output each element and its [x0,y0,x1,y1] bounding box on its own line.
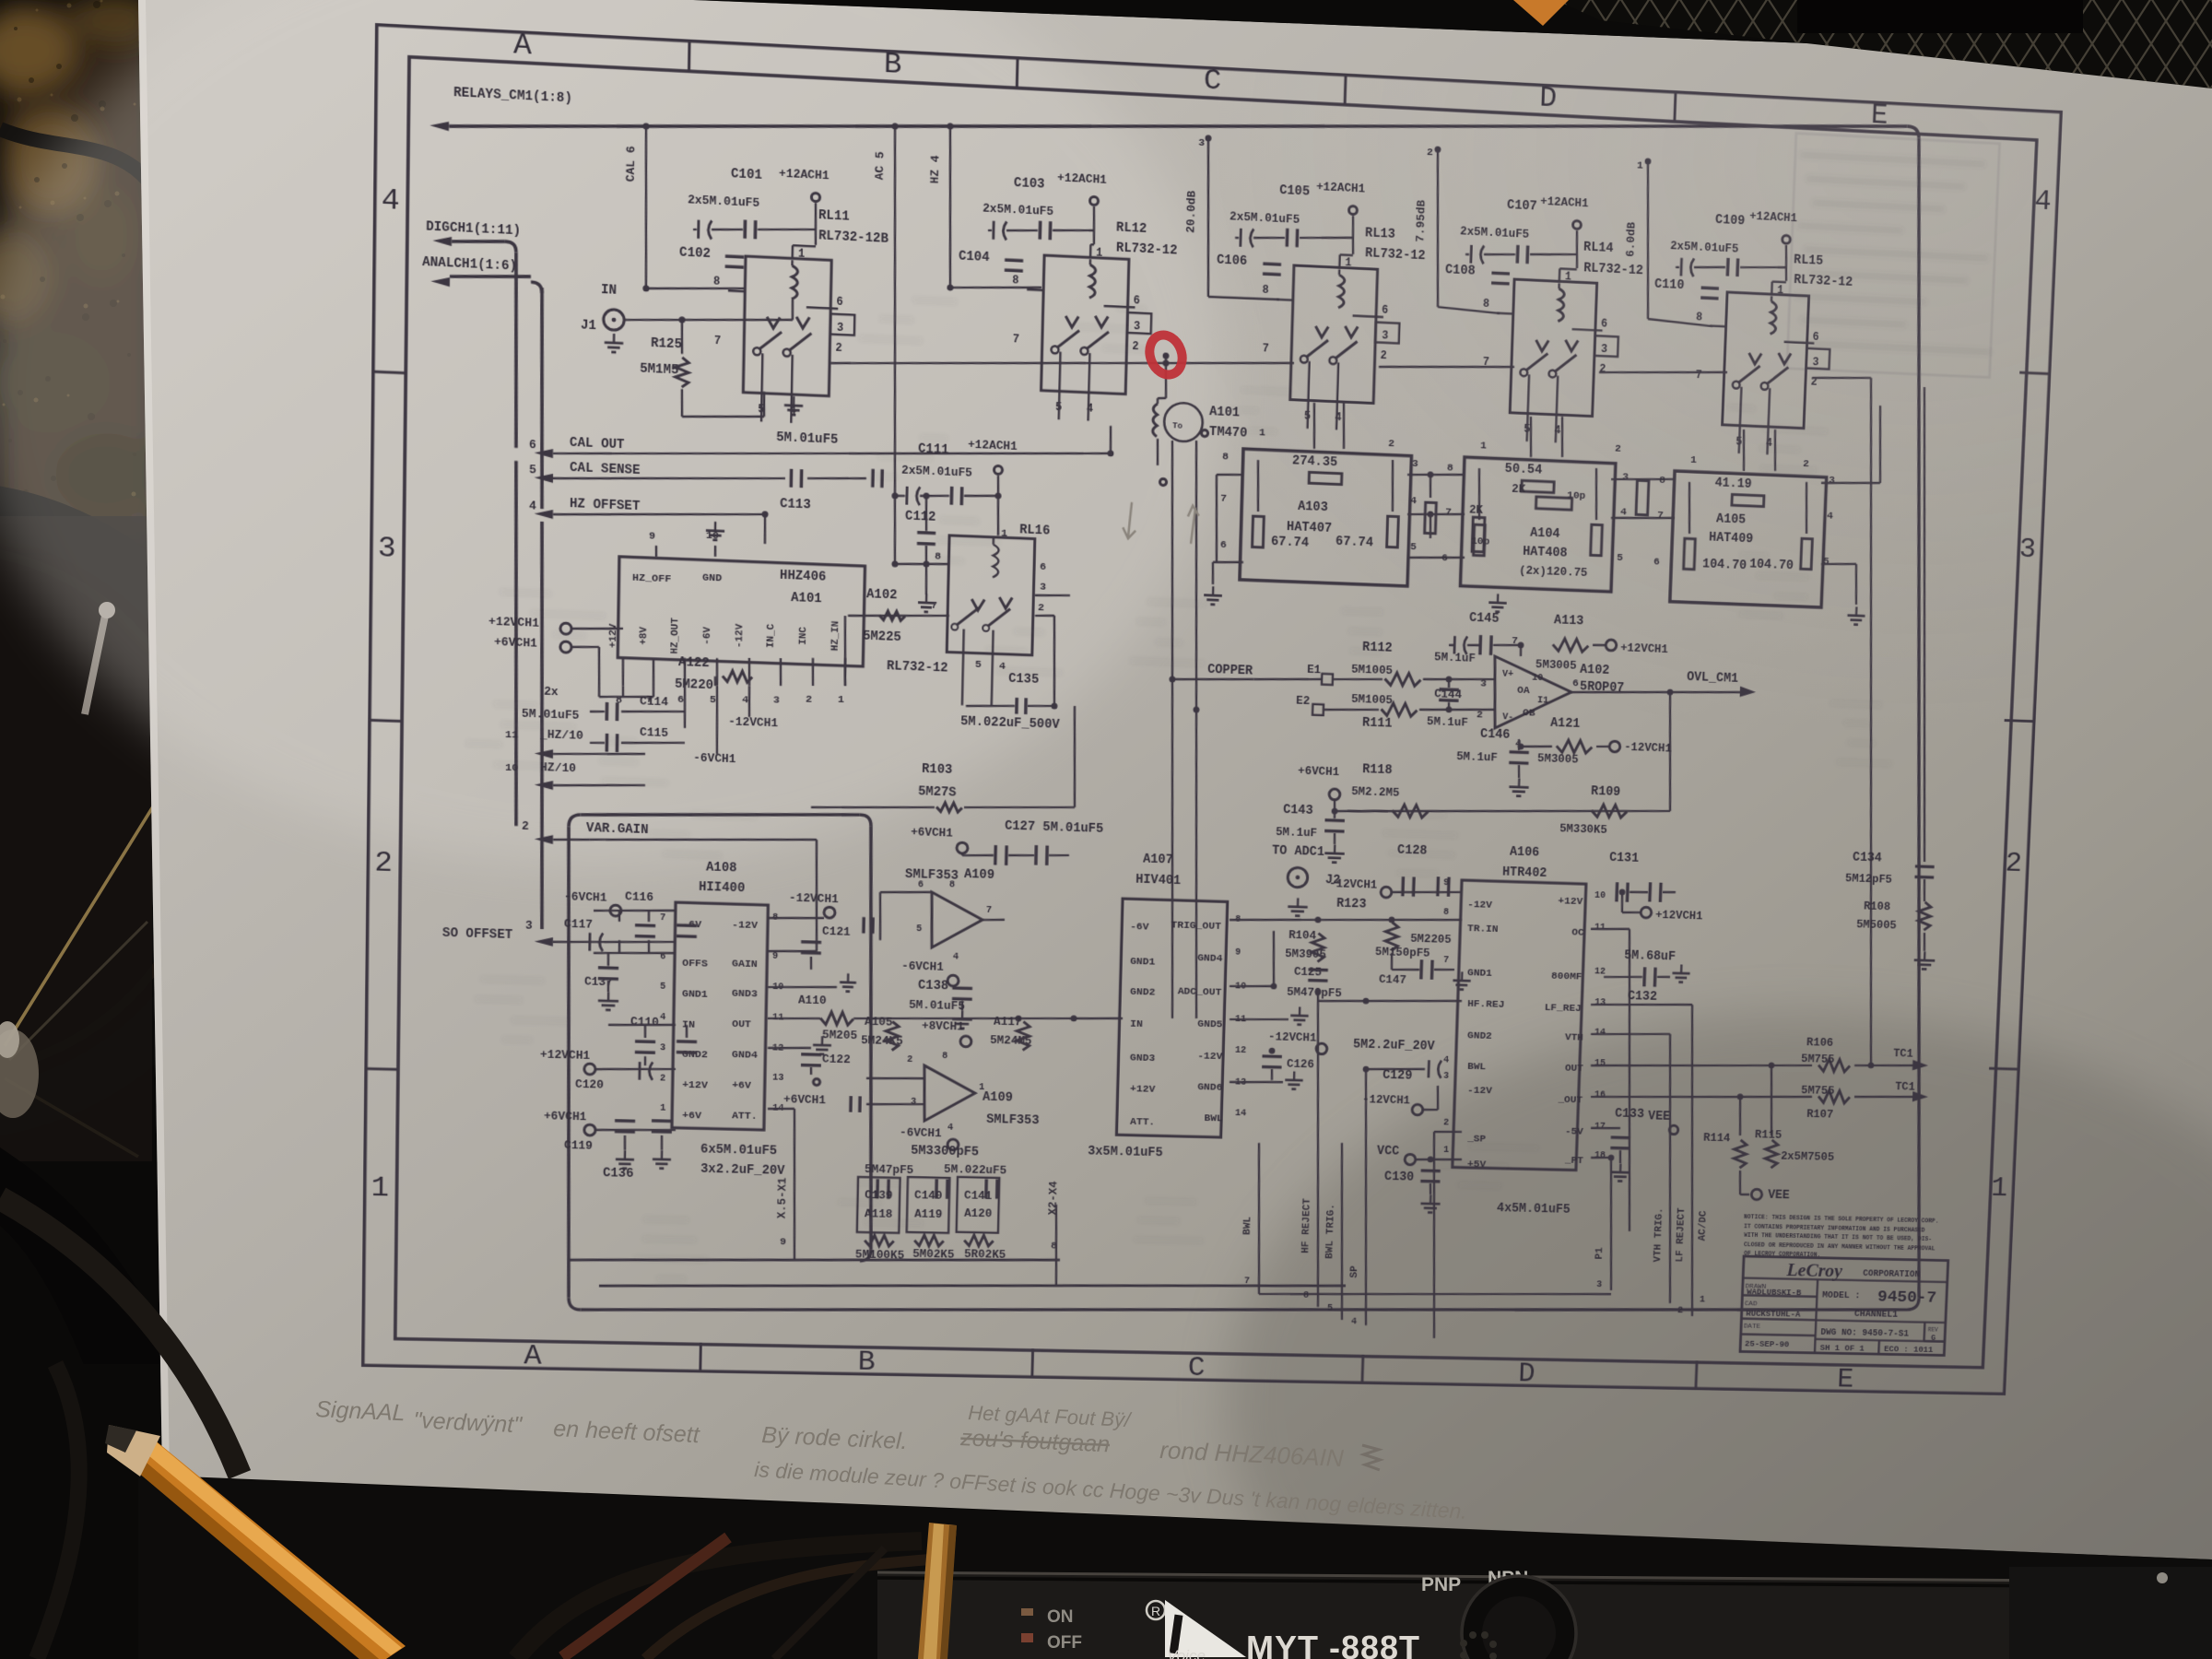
ground A105 [1855,606,1858,616]
bus RELAYS_CM1 bottom wire [581,1284,1907,1335]
bus RELAYS_CM1 right corner [1906,126,1919,138]
relay RL13 pin 3 box [1375,323,1399,344]
relay RL14 pin8 wire [1497,312,1513,314]
wire A103-A104 p5 [1407,556,1465,560]
wire A103-A104 p4 [1407,512,1465,516]
hybrid A106 box [1453,880,1586,1171]
bus RELAYS_CM1 top wire [449,52,1907,198]
op-amp A109b in wires [891,1053,892,1078]
relay RL15 coil [1771,301,1777,335]
ghost title block top right [1793,152,2000,356]
relay RL12 pin8 wire [1027,288,1043,291]
hybrid A103 top resistor [1309,472,1342,484]
zone tick bottom [699,1343,702,1373]
capacitor C102 plates [725,254,744,258]
cap-res box C140 A119 [907,1177,950,1233]
wire -12V pin9 A106 [1392,890,1462,895]
multimeter panel [877,1572,2212,1659]
bus left wire [562,827,576,1298]
capacitor C111 plates [905,487,908,505]
wire OC down [1591,928,1630,930]
wire TR.IN line [1230,912,1462,926]
transformer TM470 sec pin [1159,478,1166,485]
relay RL11 switch arrows [767,317,780,329]
relay RL16 bottom wires [962,629,964,705]
wire +12 to coil RL15 [1772,280,1786,283]
relay RL13 pin 6 [1353,316,1383,318]
relay RL12 coil [1089,265,1096,298]
transformer TM470 inner pin [1201,429,1207,436]
net HZ 4 vertical wire [947,126,954,288]
bus X2-X4 lane [1054,1205,1058,1286]
bus lanes bottom right [1259,1287,1611,1300]
bus lane BWL [1056,1280,1342,1291]
zone tick right [1989,1067,2020,1071]
cap-res box C139 A118 [857,1177,900,1233]
wire A103-A104 p3 [1407,472,1465,477]
hybrid A103 right resistor [1387,516,1399,547]
drawing outer border [361,23,2063,1395]
wire TM470 primary [1157,398,1159,404]
red annotation circle [1145,331,1188,380]
wire RL12 pin4 down [1089,392,1095,496]
wire caps rail [590,711,605,712]
tire bottom arc [0,1147,175,1438]
transformer A101 TM470 circle [1164,402,1204,441]
wire OUT line [768,1018,820,1020]
cable top-left [0,129,147,180]
capacitor C105 plates [1239,229,1241,247]
relay RL13 bottom pin wires [1308,361,1310,429]
title block mid line [1816,1320,1945,1323]
wire R108 gnd [1924,879,1925,901]
paper left edge shade [138,0,170,1476]
wire SP drop [1434,1131,1462,1132]
hybrid A101 pin 5 -6V [716,658,717,686]
bicycle wheel rim [0,507,249,1115]
relay RL14 box [1510,279,1596,417]
wire J1 to RL11 [624,312,793,327]
zone tick left [368,720,402,721]
connector J2 [1288,867,1308,888]
resistor R125 [676,358,689,388]
relay RL16 pin7 wire [848,612,949,619]
wire C111 rail [895,494,905,497]
relay RL13 box [1290,265,1378,404]
svg-text:en heeft ofsett: en heeft ofsett [553,1416,701,1448]
drawing inner border [395,57,2037,1368]
op-amp A102 pin7 wire [1520,645,1522,669]
wire R125 down [681,389,682,417]
wire A108L rails [644,1025,647,1038]
wire RL14 drop to A104 [1529,417,1532,457]
svg-text:ON: ON [1047,1607,1074,1627]
bus loop A108 right [862,826,879,1250]
hybrid top resistor [1522,480,1554,492]
relay RL14 bottom pin wires [1527,374,1529,441]
dark zone mid-left [0,516,152,1161]
wire cap rail RL14 [1465,253,1469,256]
relay RL15 bottom pin wires [1739,387,1742,453]
hybrid box [1460,457,1615,592]
capacitor C101 plates [697,220,700,239]
hybrid A101 pin 1 HZ_IN [844,658,845,686]
wire cap rail RL11 [693,229,697,231]
cap-res box C141 A120 [957,1177,1000,1233]
bus left top corner [569,815,581,828]
capacitor C145 [1453,636,1455,653]
junction OUT rows [1769,1063,1775,1069]
hybrid inner wires [1688,482,1691,534]
hybrid A101 HHZ406 box [618,557,865,666]
svg-text:OFF: OFF [1047,1633,1082,1653]
zone tick bottom [1696,1360,1697,1390]
zone tick bottom [1362,1355,1363,1384]
bus loop A108 top [581,806,860,823]
relay RL12 pin1 wire [1089,244,1092,257]
paper sheen [0,0,1226,866]
title block left column line [1815,1279,1818,1353]
relay RL16 box [947,535,1035,655]
capacitor C106 plates [1263,262,1281,265]
relay RL15 box [1723,292,1809,429]
wire C116 rails [594,908,676,912]
relay RL12 pin 6 [1104,306,1135,308]
meter logo triangle [1165,1600,1246,1657]
relay RL13 pin1 wire [1338,254,1341,267]
right equipment dark [2009,1567,2212,1659]
wire junction to TM470 [1165,356,1168,398]
wire AC junction to RL16 [895,562,949,567]
hybrid A101 pin9 [655,546,658,557]
pencil2 stick [918,1523,957,1659]
relay RL11 switch levers [759,331,782,350]
svg-text:Bÿ rode cirkel.: Bÿ rode cirkel. [761,1422,908,1454]
relay RL15 pin1 wire [1771,282,1773,295]
zone tick right [2005,720,2036,721]
wire cap rail RL13 [1235,237,1239,240]
desk texture top-left [0,0,157,535]
relay RL12 box [1041,255,1129,394]
wire A104-A105 [1611,477,1675,482]
bus X.5-X1 lane [570,1250,1060,1270]
ground A108 GND3 [768,985,837,989]
capacitor C113 [790,469,794,488]
svg-text:PNP: PNP [1421,1574,1461,1595]
relay RL12 switch levers [1057,330,1079,349]
transistor socket [1462,1576,1576,1659]
title block bottom line [1816,1339,1945,1342]
relay RL14 pin 3 box [1594,335,1618,357]
relay RL16 levers [957,607,979,627]
hybrid A103 inner wires [1256,460,1259,512]
top edge dark strip [693,0,2212,59]
zone tick right [2019,372,2051,374]
hybrid A101 pin 2 INC [812,658,813,686]
capacitor C103 plates [992,221,994,240]
ground J1 [613,334,616,343]
relay RL14 pin 6 [1572,329,1603,331]
wire +12VCH1 to pin8 [571,627,623,630]
hybrid A101 pin 8 +12V [621,658,624,686]
svg-text:rond HHZ406AIN: rond HHZ406AIN [1159,1436,1345,1472]
ground A104 [1497,594,1500,603]
wire CAL OUT drop [1110,426,1111,453]
op-amp pin4 wire [1520,715,1522,747]
hybrid A101 pin10 [714,546,717,557]
title block outer box [1740,1256,1948,1355]
title block left rows [1742,1295,1817,1297]
relay RL11 coil [792,265,798,299]
bus ANALCH1 lower run [512,461,522,826]
relay RL15 pin8 wire [1710,324,1725,327]
wire GND5 A107 [1230,1018,1288,1020]
relay RL16 coil [993,545,999,578]
tire arcs bottom left [0,1198,240,1475]
zone tick top [1345,74,1346,105]
hybrid inner wires [1477,468,1481,520]
wire A105 right out [1821,480,1880,485]
wire E1 line [1253,677,1322,681]
wire A101 pin1 to A102 [843,616,846,686]
wire OUT row [1591,1060,1812,1072]
power VEE pin [1669,1125,1678,1135]
net HZ OFFSET stub [535,509,554,519]
wire COPPER left [1172,677,1253,682]
power +12ACH1 pin RL14 [1572,220,1581,229]
relay RL14 pin1 wire [1559,268,1561,281]
bus DIGCH1 wedge [432,236,452,246]
feedback resistors [865,1235,894,1246]
handwriting scribble [1361,1445,1381,1470]
net CAL SENSE stub [535,473,554,483]
op-amp A109a triangle [931,892,983,949]
wire +12 to coil RL13 [1340,253,1353,256]
relay RL12 pin 3 box [1127,312,1151,334]
nail [85,616,105,714]
wire C145 to opamp pin7 [1519,645,1522,656]
hybrid top resistor [1732,495,1764,507]
power +12VCH1 A106 [1641,907,1652,918]
hybrid A103 box [1240,449,1411,586]
wire BWL drop [1358,1069,1373,1325]
bus ANALCH1 wire [450,273,531,280]
relay RL15 pin 3 box [1806,348,1830,370]
wheel spoke dim [9,922,147,1060]
wire J1 branch down [681,320,682,354]
hybrid left resistor [1474,524,1486,556]
zone tick left [371,371,406,373]
relay RL11 box [743,256,831,396]
relay RL12 switch arrows [1065,316,1078,328]
wire RL15 drop to A105 [1742,429,1745,471]
capacitor C108 plates [1491,271,1510,275]
relay RL14 coil [1558,288,1564,322]
ground GND6 A107 [1230,1081,1283,1084]
power -12VCH1 opamp [1609,741,1620,752]
title block LeCroy row line [1743,1278,1947,1283]
bus ANALCH1 wedge [430,276,450,287]
capacitor C107 plates [1469,245,1472,264]
bus DIGCH1 wire [452,239,505,243]
wire main signal [830,343,1294,383]
relay RL13 switch levers [1306,339,1328,359]
wire cap rail RL15 [1676,266,1679,269]
svg-text:R: R [1151,1604,1160,1618]
pencil arrow down [1123,502,1136,539]
title block ECO div [1877,1340,1880,1354]
wire TM470 secondary left [1157,441,1188,1018]
hybrid left resistor [1684,538,1696,569]
wire out feedback [1665,692,1675,811]
wire RL15 out [1812,375,1871,381]
wire to VEE [1739,1171,1741,1194]
ground A101 pin10 [714,522,717,531]
wire R103 left [808,687,813,807]
resistor A102 [879,611,905,621]
wire cap rail RL12 [988,229,992,232]
net 6.0dB drop [1642,161,1653,319]
capacitor C127 plates [994,845,997,865]
net AC 5 vertical wire [886,126,904,564]
relay RL14 switch arrows [1535,340,1548,351]
wire +12 to coil RL14 [1559,267,1577,270]
svg-text:Voice: Voice [1167,1647,1206,1659]
hybrid right resistor [1801,538,1813,569]
wire R118 rail [1333,800,1335,811]
hybrid right resistor [1591,524,1603,556]
hybrid A101 pin 7 +8V [652,658,654,686]
wire VAR.GAIN [590,832,817,846]
relay RL11 pin8 wire [728,289,745,292]
zone tick left [364,1067,398,1071]
wire VTH [1591,1032,1670,1037]
wire E2 line [1196,706,1312,714]
wire ATT 14 [768,1108,794,1109]
wire HZ OFFSET down [764,514,765,544]
hybrid A101 pin 3 IN_C [780,658,781,686]
wheel hub reflector [0,1030,39,1118]
wire opamp out [1571,688,1670,696]
op-amp A109a box wire [880,890,932,893]
ground RL11 switch [793,396,795,406]
wire RL14 to RL15 [1599,367,1727,378]
bus RELAYS_CM1 wedge [429,121,449,131]
zone tick bottom [1030,1348,1034,1378]
pencil arrow up [1187,505,1199,544]
zone tick top [1016,56,1019,88]
below-paper darkness [138,1476,2212,1659]
transformer TM470 coil [1153,404,1158,437]
capacitor C104 plates [1005,258,1023,262]
wire +12 to coil RL11 [793,245,816,246]
svg-text:"verdwÿnt": "verdwÿnt" [413,1407,524,1438]
bus bottom-left corner [569,1298,581,1310]
relay RL14 switch levers [1525,353,1547,372]
relay RL15 pin 6 [1784,342,1815,343]
svg-text:SignAAL: SignAAL [315,1396,406,1426]
wire A103 left pins [1217,474,1243,476]
orange sliver top [1513,0,1569,26]
ghost show-through marks [459,276,1909,1305]
power +12ACH1 pin RL13 [1348,206,1357,214]
meter R symbol [1147,1601,1165,1619]
connector J1 circle [604,309,625,330]
bus RELAYS_CM1 right wire [1871,138,1969,1298]
meter ON OFF icons [1021,1608,1033,1616]
svg-text:MYT -888T: MYT -888T [1246,1629,1420,1659]
bus verticals bottom left [1254,1143,1263,1294]
op-amp A109b triangle [924,1065,976,1122]
dark bottom-left [0,1364,369,1659]
desk speckles [14,27,18,30]
relay RL12 bottom pin wires [1059,352,1061,420]
wire ADC_OUT to J2 [1230,985,1274,988]
pencil wood tip [107,1425,160,1477]
capacitor C109 plates [1679,258,1683,276]
svg-text:zou's foutgaan: zou's foutgaan [959,1425,1111,1457]
relay RL13 pin8 wire [1277,299,1293,301]
relay RL11 pin1 wire [791,245,794,258]
wire CAL junction to RL11 [646,284,746,293]
feedback caps [876,1179,879,1198]
wire right column [1904,387,1944,862]
net 7.95dB drop [1433,149,1443,307]
zone tick top [1675,90,1676,122]
relay RL11 pin 6 [806,307,838,309]
wire HF.REJ [1318,997,1462,1006]
relay RL11 bottom pin wires [761,353,762,421]
net OVL_CM1 arrow [1670,689,1747,695]
hybrid A107 box [1116,899,1227,1137]
net CAL OUT stub [534,448,553,458]
relay RL11 pin 3 box [830,314,855,335]
bus RELAYS_CM1 bottom corner [1907,1298,1919,1310]
wire +12 to coil RL12 [1090,243,1094,246]
wire OUT2 row [1591,1091,1812,1102]
net CAL 6 vertical wire [643,126,649,288]
pencil shaft [122,1434,406,1659]
op-amp A109a out [982,919,1005,920]
wire LF_REJ [1591,1002,1692,1007]
wire RL13 drops [1313,403,1316,449]
title block REV box [1923,1323,1925,1342]
resistor A122 [723,671,752,683]
wire RL13 to RL14 [1379,361,1514,373]
cable bundle bottom [516,1541,922,1659]
net 20.0dB drop [1204,138,1212,297]
op-amp A102 triangle [1492,656,1572,731]
power +12VCH1 opamp [1606,640,1617,651]
relay RL16 switch arrows [971,599,984,610]
relay RL15 switch arrows [1748,353,1761,364]
wire -5V C133 [1591,1127,1620,1129]
capacitor C110 plates [1701,286,1719,289]
hybrid A108 box [672,902,768,1130]
wheel spoke gold [5,804,155,1046]
power +12ACH1 pin RL15 [1783,235,1791,243]
power +12ACH1 pin RL11 [811,193,819,202]
hybrid A101 pin 4 -12V [748,658,749,686]
hybrid A103 left resistor [1253,516,1265,547]
relay RL15 switch levers [1738,365,1760,384]
resistor R103 [936,803,962,813]
wire PT down [1591,1157,1611,1158]
power +12ACH1 pin RL12 [1089,196,1098,205]
relay RL13 coil [1338,275,1345,308]
zone tick top [688,40,691,72]
ground A103 [1212,586,1215,595]
